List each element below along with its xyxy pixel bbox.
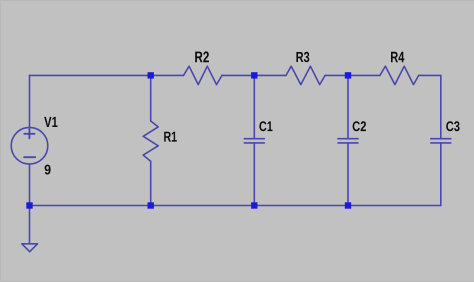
wire R1 bottom stub bbox=[150, 161, 152, 205]
label R2 bbox=[195, 51, 209, 62]
node V1 bottom junction bbox=[26, 202, 32, 208]
wire C2 bottom stub bbox=[347, 143, 349, 206]
wire C1 bottom stub bbox=[253, 143, 255, 206]
wire below V1 bbox=[29, 164, 31, 206]
resistor R1 bbox=[143, 121, 158, 161]
label R1 bbox=[164, 132, 177, 142]
wire top segment C bbox=[325, 74, 380, 76]
wire right vertical bottom bbox=[440, 143, 442, 206]
capacitor C2 bbox=[338, 139, 358, 143]
label V1 bbox=[44, 117, 57, 127]
label R3 bbox=[296, 52, 309, 62]
wire right vertical top bbox=[440, 75, 442, 138]
ground bbox=[22, 244, 38, 252]
node C2 top junction bbox=[345, 72, 351, 78]
node R1 top junction bbox=[148, 72, 154, 78]
node C2 bottom junction bbox=[345, 202, 351, 208]
resistor R3 bbox=[286, 66, 325, 84]
wire top segment A bbox=[30, 74, 184, 76]
label C2 bbox=[353, 121, 366, 131]
resistor R2 bbox=[184, 66, 223, 84]
label R4 bbox=[391, 52, 404, 62]
V1 plus sign bbox=[24, 129, 34, 138]
wire R1 top stub bbox=[150, 75, 152, 121]
wire C2 top stub bbox=[347, 75, 349, 138]
wire top segment D bbox=[419, 74, 441, 76]
wire C1 top stub bbox=[253, 75, 255, 138]
label 9 (value of V1) bbox=[45, 165, 51, 175]
wire ground stem bbox=[29, 206, 31, 244]
resistor R4 bbox=[380, 66, 419, 84]
node C1 bottom junction bbox=[251, 202, 257, 208]
node R1 bottom junction bbox=[148, 202, 154, 208]
label C3 bbox=[446, 121, 459, 131]
wire top-left vertical bbox=[29, 75, 31, 127]
capacitor C1 bbox=[244, 139, 264, 143]
node C1 top junction bbox=[251, 72, 257, 78]
capacitor C3 bbox=[431, 139, 451, 143]
wire top segment B bbox=[222, 74, 286, 76]
label C1 bbox=[259, 121, 272, 131]
voltage source V1 circle bbox=[11, 127, 48, 164]
wire bottom horizontal bbox=[30, 205, 441, 207]
V1 minus sign bbox=[24, 156, 35, 158]
